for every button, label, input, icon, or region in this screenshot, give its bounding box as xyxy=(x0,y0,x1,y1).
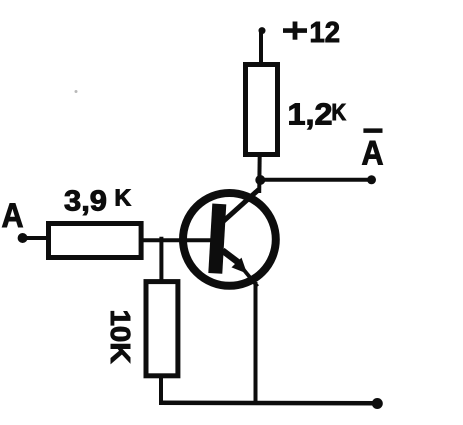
svg-text:12: 12 xyxy=(310,17,341,49)
svg-text:1,2: 1,2 xyxy=(288,97,333,132)
svg-text:A: A xyxy=(362,134,384,172)
svg-text:K: K xyxy=(332,99,347,125)
svg-text:K: K xyxy=(115,185,132,211)
svg-text:A: A xyxy=(2,197,24,235)
svg-text:10K: 10K xyxy=(105,310,136,364)
svg-text:3,9: 3,9 xyxy=(64,186,107,218)
